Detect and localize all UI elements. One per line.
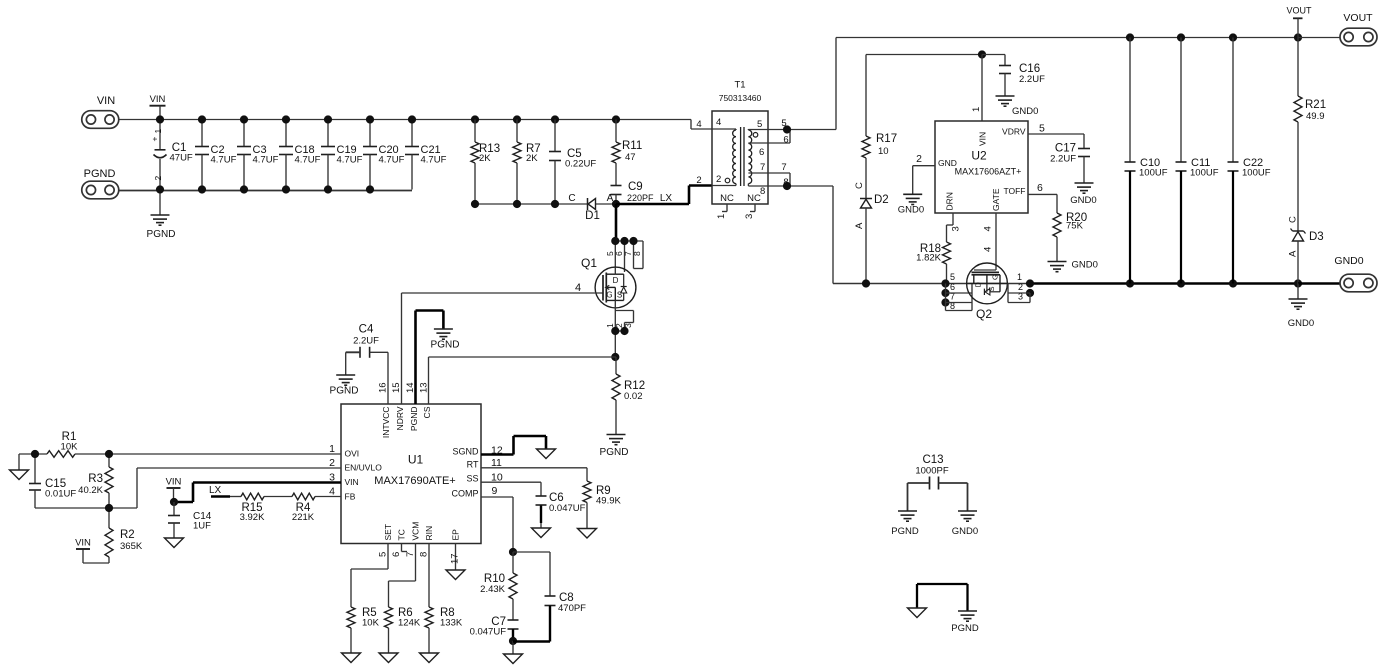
svg-text:40.2K: 40.2K: [78, 485, 103, 496]
svg-text:4: 4: [329, 486, 335, 498]
svg-text:Q2: Q2: [976, 307, 992, 321]
svg-text:GND0: GND0: [952, 526, 978, 537]
svg-text:4.7UF: 4.7UF: [379, 155, 405, 166]
svg-text:2K: 2K: [479, 153, 491, 164]
svg-text:4: 4: [575, 282, 581, 294]
svg-text:49.9: 49.9: [1306, 111, 1325, 122]
svg-text:1UF: 1UF: [193, 521, 211, 532]
svg-text:2: 2: [153, 176, 163, 181]
svg-text:1000PF: 1000PF: [915, 466, 948, 477]
svg-text:CS: CS: [422, 406, 432, 418]
svg-text:OVI: OVI: [345, 449, 360, 459]
svg-text:PGND: PGND: [600, 447, 629, 458]
svg-text:DRN: DRN: [945, 192, 955, 210]
svg-text:6: 6: [950, 282, 955, 292]
svg-text:1: 1: [329, 443, 335, 455]
svg-text:FB: FB: [345, 492, 356, 502]
svg-text:GND0: GND0: [1070, 195, 1096, 206]
svg-text:EN/UVLO: EN/UVLO: [345, 463, 383, 473]
svg-text:6: 6: [391, 552, 402, 557]
svg-text:VOUT: VOUT: [1343, 12, 1373, 24]
svg-text:0.047UF: 0.047UF: [549, 503, 586, 514]
svg-text:10K: 10K: [61, 442, 79, 453]
svg-text:GND0: GND0: [1012, 106, 1038, 117]
svg-text:PGND: PGND: [84, 168, 116, 180]
svg-text:75K: 75K: [1066, 221, 1084, 232]
svg-text:R21: R21: [1305, 99, 1326, 111]
svg-text:VIN: VIN: [97, 95, 115, 107]
svg-text:49.9K: 49.9K: [596, 496, 621, 507]
svg-text:C4: C4: [359, 324, 374, 336]
svg-text:10: 10: [491, 472, 503, 484]
svg-text:0.01UF: 0.01UF: [45, 489, 76, 500]
svg-text:SS: SS: [466, 474, 478, 484]
svg-text:PGND: PGND: [431, 340, 460, 351]
svg-text:6: 6: [783, 135, 788, 146]
svg-text:G: G: [991, 274, 1000, 280]
svg-text:U2: U2: [971, 149, 987, 163]
svg-text:COMP: COMP: [452, 489, 479, 499]
svg-text:VIN: VIN: [166, 477, 182, 488]
svg-text:EP: EP: [451, 529, 461, 541]
svg-text:MAX17690ATE+: MAX17690ATE+: [374, 475, 455, 487]
svg-text:RIN: RIN: [424, 526, 434, 541]
svg-text:R3: R3: [88, 473, 103, 485]
svg-text:S: S: [987, 286, 996, 291]
svg-text:T1: T1: [734, 80, 745, 91]
svg-text:C13: C13: [922, 454, 943, 466]
svg-text:C: C: [568, 193, 575, 204]
svg-text:GND0: GND0: [1334, 255, 1363, 267]
svg-text:4: 4: [983, 247, 994, 252]
svg-text:16: 16: [378, 382, 389, 393]
svg-text:3: 3: [951, 226, 962, 231]
svg-text:3: 3: [329, 472, 335, 484]
svg-text:Q1: Q1: [581, 256, 597, 270]
svg-text:10K: 10K: [362, 618, 380, 629]
svg-text:133K: 133K: [440, 618, 463, 629]
svg-text:R17: R17: [876, 133, 897, 145]
svg-text:PGND: PGND: [951, 623, 979, 634]
svg-text:R2: R2: [120, 529, 135, 541]
svg-text:9: 9: [492, 485, 498, 497]
svg-text:7: 7: [405, 552, 416, 557]
svg-text:D3: D3: [1309, 231, 1324, 243]
svg-text:PGND: PGND: [147, 229, 176, 240]
svg-text:2: 2: [716, 174, 721, 185]
svg-text:SGND: SGND: [452, 447, 479, 457]
svg-text:PGND: PGND: [409, 407, 419, 432]
svg-text:470PF: 470PF: [558, 603, 586, 614]
svg-text:NDRV: NDRV: [395, 406, 405, 430]
svg-text:D: D: [613, 276, 619, 285]
svg-text:NC: NC: [720, 193, 734, 204]
svg-text:C9: C9: [628, 181, 643, 193]
svg-text:4.7UF: 4.7UF: [337, 155, 363, 166]
svg-text:7: 7: [760, 162, 765, 173]
svg-text:17: 17: [450, 553, 461, 564]
svg-text:D1: D1: [585, 210, 600, 222]
svg-text:4: 4: [716, 117, 721, 128]
svg-text:750313460: 750313460: [719, 93, 762, 103]
svg-text:5: 5: [1039, 123, 1045, 135]
svg-text:1: 1: [716, 214, 727, 219]
svg-text:4.7UF: 4.7UF: [421, 155, 447, 166]
svg-text:G: G: [606, 291, 612, 300]
svg-text:1: 1: [971, 107, 982, 112]
svg-text:C: C: [1288, 216, 1299, 223]
svg-text:6: 6: [759, 147, 764, 158]
svg-text:VIN: VIN: [150, 94, 166, 105]
svg-text:VIN: VIN: [75, 538, 91, 549]
svg-text:A: A: [1288, 250, 1299, 257]
svg-text:GND0: GND0: [1072, 260, 1098, 271]
svg-text:5: 5: [781, 118, 786, 129]
svg-text:15: 15: [391, 382, 402, 393]
svg-text:D: D: [974, 282, 983, 288]
svg-text:7: 7: [781, 162, 786, 173]
svg-text:10: 10: [878, 146, 889, 157]
svg-text:47: 47: [625, 152, 636, 163]
svg-text:LX: LX: [660, 193, 673, 204]
svg-text:4.7UF: 4.7UF: [295, 155, 321, 166]
svg-text:PGND: PGND: [330, 386, 359, 397]
svg-text:2: 2: [916, 153, 922, 165]
svg-text:1: 1: [1017, 272, 1022, 282]
svg-text:100UF: 100UF: [1242, 168, 1271, 179]
svg-text:4.7UF: 4.7UF: [253, 155, 279, 166]
svg-text:S: S: [617, 291, 622, 300]
svg-text:2.2UF: 2.2UF: [1050, 154, 1076, 165]
svg-text:2.2UF: 2.2UF: [353, 336, 379, 347]
svg-text:11: 11: [491, 457, 502, 469]
svg-text:TC: TC: [397, 529, 407, 540]
svg-text:VCM: VCM: [411, 522, 421, 541]
svg-text:0.047UF: 0.047UF: [470, 627, 507, 638]
svg-text:14: 14: [405, 382, 416, 393]
svg-text:VDRV: VDRV: [1002, 127, 1026, 137]
svg-text:0.22UF: 0.22UF: [565, 159, 596, 170]
svg-text:PGND: PGND: [891, 526, 919, 537]
svg-text:GND0: GND0: [898, 205, 924, 216]
svg-text:MAX17606AZT+: MAX17606AZT+: [955, 167, 1022, 177]
svg-text:2: 2: [1018, 282, 1023, 292]
svg-text:1: 1: [153, 129, 163, 134]
svg-text:6: 6: [1037, 182, 1043, 194]
svg-text:2.2UF: 2.2UF: [1019, 74, 1045, 85]
svg-text:LX: LX: [209, 485, 222, 496]
svg-text:2: 2: [696, 175, 701, 186]
svg-text:2K: 2K: [526, 153, 538, 164]
svg-text:D2: D2: [874, 194, 889, 206]
svg-text:4: 4: [696, 119, 701, 130]
svg-text:GND: GND: [938, 158, 957, 168]
svg-text:100UF: 100UF: [1139, 168, 1168, 179]
svg-text:3: 3: [744, 214, 755, 219]
svg-text:VIN: VIN: [345, 477, 359, 487]
svg-text:1.82K: 1.82K: [916, 253, 941, 264]
svg-text:8: 8: [419, 552, 430, 557]
svg-text:124K: 124K: [398, 618, 421, 629]
svg-text:C: C: [854, 182, 865, 189]
svg-text:100UF: 100UF: [1190, 168, 1219, 179]
svg-text:5: 5: [757, 119, 762, 130]
svg-text:U1: U1: [408, 453, 424, 467]
svg-text:0.02: 0.02: [624, 391, 643, 402]
svg-text:5: 5: [378, 552, 389, 557]
svg-text:5: 5: [950, 272, 955, 282]
svg-text:13: 13: [419, 382, 430, 393]
svg-text:365K: 365K: [120, 541, 143, 552]
svg-text:GND0: GND0: [1288, 318, 1314, 329]
svg-text:TOFF: TOFF: [1003, 186, 1025, 196]
svg-text:GATE: GATE: [991, 188, 1001, 211]
svg-text:VIN: VIN: [978, 132, 988, 146]
svg-text:3.92K: 3.92K: [240, 512, 265, 523]
svg-text:4.7UF: 4.7UF: [211, 155, 237, 166]
svg-text:INTVCC: INTVCC: [381, 407, 391, 439]
svg-text:NC: NC: [747, 193, 761, 204]
svg-text:221K: 221K: [292, 512, 315, 523]
svg-text:3: 3: [623, 323, 633, 328]
svg-text:+: +: [150, 137, 160, 142]
svg-text:8: 8: [632, 251, 642, 256]
svg-text:2: 2: [329, 457, 335, 469]
svg-text:R11: R11: [622, 140, 642, 152]
svg-text:2.43K: 2.43K: [480, 584, 505, 595]
svg-text:220PF: 220PF: [627, 193, 654, 203]
svg-text:A: A: [854, 222, 865, 229]
svg-text:RT: RT: [467, 460, 479, 470]
svg-text:VOUT: VOUT: [1286, 6, 1312, 16]
svg-text:12: 12: [491, 445, 503, 457]
svg-text:4: 4: [983, 226, 994, 231]
svg-text:8: 8: [783, 177, 788, 188]
svg-text:47UF: 47UF: [170, 153, 193, 164]
svg-text:SET: SET: [383, 524, 393, 541]
